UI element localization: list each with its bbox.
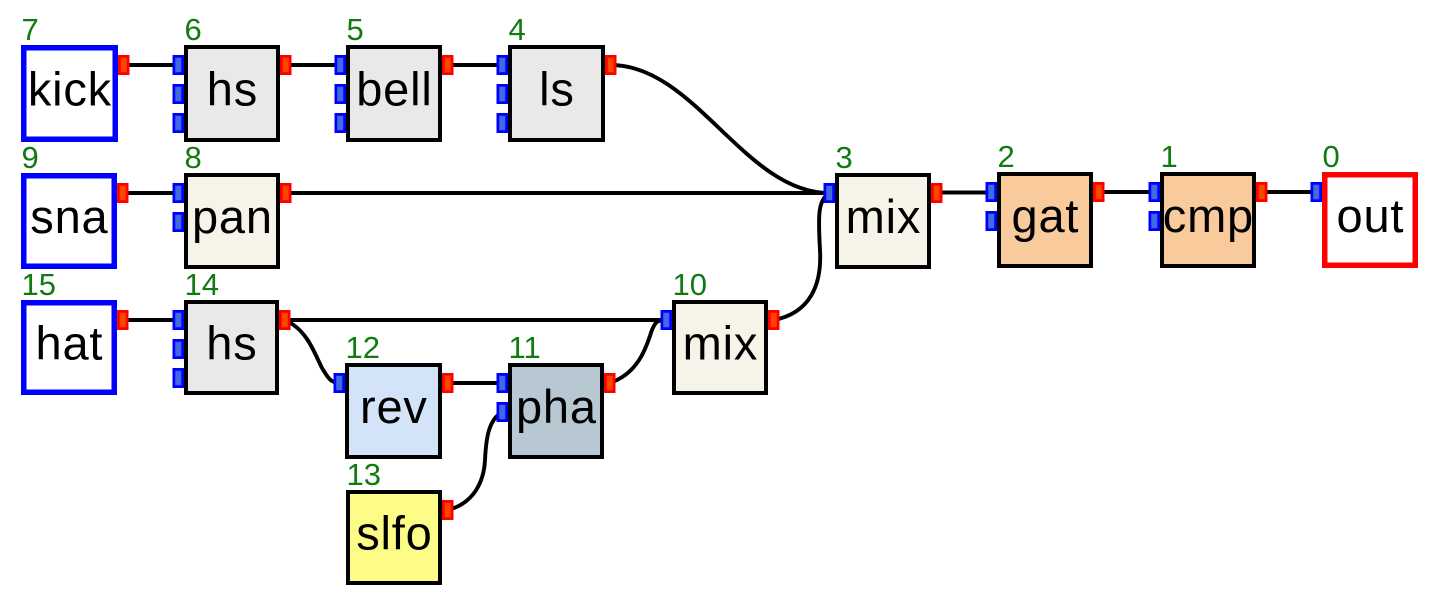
input port 2 of pha [497, 402, 509, 422]
output port of hs [280, 55, 292, 75]
node 3: box mix [824, 140, 943, 267]
input port 3 of ls [497, 113, 509, 133]
output port of sna [117, 183, 129, 203]
input port 1 of cmp [1149, 182, 1161, 202]
output port of mix [931, 183, 943, 203]
input port 3 of hs [173, 113, 185, 133]
box mix body [674, 302, 766, 393]
svg-text:ls: ls [539, 63, 575, 116]
box hs body [186, 47, 278, 140]
box rev body [347, 365, 440, 457]
wire hs.out to bell.in1 [286, 63, 340, 67]
box hat body [24, 303, 115, 393]
svg-text:kick: kick [28, 63, 112, 116]
svg-text:bell: bell [356, 63, 432, 116]
svg-text:11: 11 [509, 330, 541, 365]
svg-text:cmp: cmp [1163, 189, 1254, 242]
box bell body [348, 47, 440, 140]
svg-text:hs: hs [206, 317, 257, 370]
svg-text:mix: mix [846, 190, 922, 243]
svg-text:3: 3 [836, 140, 853, 175]
wire sna.out to pan.in1 [123, 191, 178, 195]
node 5: box bell [335, 12, 454, 140]
wire pan.out to mix.in (node 3) [286, 191, 829, 195]
box hs body [186, 302, 277, 393]
input port 1 of bell [335, 55, 347, 75]
input port 1 of ls [497, 55, 509, 75]
svg-text:2: 2 [998, 139, 1015, 174]
output port of hat [117, 310, 129, 330]
input port 2 of pan [173, 212, 185, 232]
input port 2 of cmp [1149, 211, 1161, 231]
box pha body [510, 365, 602, 457]
svg-text:12: 12 [346, 330, 380, 365]
output port of gat [1093, 182, 1105, 202]
box gat body [999, 174, 1091, 266]
box ls body [510, 47, 603, 140]
svg-text:7: 7 [22, 12, 39, 47]
input port 1 of pan [173, 183, 185, 203]
wire hat.out to hs.in1 (node 14) [123, 318, 178, 322]
wire pha.out to mix.in (node 10) [610, 320, 666, 383]
wire mix.out to gat.in1 [937, 191, 991, 195]
input port 1 of mix [661, 310, 673, 330]
svg-text:pha: pha [516, 380, 597, 433]
input port 3 of bell [335, 113, 347, 133]
box pan body [186, 175, 278, 267]
node 13: box slfo [347, 457, 454, 583]
svg-text:14: 14 [185, 267, 219, 302]
box kick body [24, 48, 116, 140]
wire kick.out to hs.in1 [124, 63, 178, 67]
node 2: box gat [986, 139, 1105, 266]
svg-text:5: 5 [347, 12, 364, 47]
output port of bell [442, 55, 454, 75]
output port of ls [605, 55, 617, 75]
box sna body [24, 176, 115, 267]
input port 2 of gat [986, 211, 998, 231]
input port 1 of hs [173, 310, 185, 330]
svg-text:gat: gat [1012, 189, 1080, 242]
node 9: box sna [22, 140, 129, 266]
wire gat.out to cmp.in1 [1099, 190, 1154, 194]
wire ls.out to mix.in (node 3) [611, 65, 829, 193]
node 6: box hs [173, 12, 292, 140]
input port 1 of pha [497, 373, 509, 393]
node 10: box mix [661, 267, 780, 393]
svg-text:out: out [1337, 189, 1405, 242]
node 1: box cmp [1149, 139, 1268, 266]
svg-text:hs: hs [207, 63, 258, 116]
box slfo body [348, 492, 440, 583]
output port of pan [280, 183, 292, 203]
svg-text:hat: hat [36, 317, 104, 370]
wire bell.out to ls.in1 [448, 63, 502, 67]
svg-text:13: 13 [347, 457, 381, 492]
svg-text:10: 10 [673, 267, 707, 302]
wire rev.out to pha.in1 [448, 381, 502, 385]
input port 2 of ls [497, 84, 509, 104]
input port 3 of hs [173, 368, 185, 388]
svg-text:4: 4 [509, 12, 526, 47]
output port of rev [442, 373, 454, 393]
box mix body [837, 175, 929, 267]
node 0: box out [1311, 139, 1416, 265]
output port of mix [768, 310, 780, 330]
wire mix.out (node 10) to mix.in (node 3) [774, 193, 829, 320]
input port 1 of mix [824, 183, 836, 203]
svg-text:9: 9 [22, 140, 39, 175]
svg-text:sna: sna [30, 190, 108, 243]
output port of slfo [442, 500, 454, 520]
svg-text:8: 8 [185, 140, 202, 175]
svg-text:rev: rev [360, 380, 428, 433]
input port 1 of gat [986, 182, 998, 202]
output port of hs [279, 310, 291, 330]
svg-text:15: 15 [22, 267, 56, 302]
node 12: box rev [334, 330, 454, 457]
input port 2 of hs [173, 339, 185, 359]
node 4: box ls [497, 12, 617, 140]
wire hs.out (node 14) to rev.in [285, 320, 339, 383]
output port of pha [604, 373, 616, 393]
node 7: box kick [22, 12, 130, 139]
svg-text:6: 6 [185, 12, 202, 47]
input port 1 of rev [334, 373, 346, 393]
wire hs.out (node 14) to mix.in (node 10) [285, 318, 666, 322]
output port of cmp [1256, 182, 1268, 202]
node 11: box pha [497, 330, 616, 457]
node 8: box pan [173, 140, 292, 267]
svg-text:1: 1 [1161, 139, 1178, 174]
wire slfo.out to pha.in2 [448, 412, 502, 510]
node 14: box hs [173, 267, 291, 393]
input port 2 of hs [173, 84, 185, 104]
input port 2 of bell [335, 84, 347, 104]
wire cmp.out to out.in [1262, 190, 1316, 194]
svg-text:pan: pan [192, 190, 273, 243]
input port 1 of hs [173, 55, 185, 75]
input port 1 of out [1311, 182, 1323, 202]
svg-text:0: 0 [1323, 139, 1340, 174]
box out body [1325, 175, 1416, 266]
box cmp body [1162, 174, 1254, 266]
output port of kick [118, 55, 130, 75]
svg-text:slfo: slfo [356, 507, 432, 560]
svg-text:mix: mix [683, 317, 759, 370]
node 15: box hat [22, 267, 129, 392]
